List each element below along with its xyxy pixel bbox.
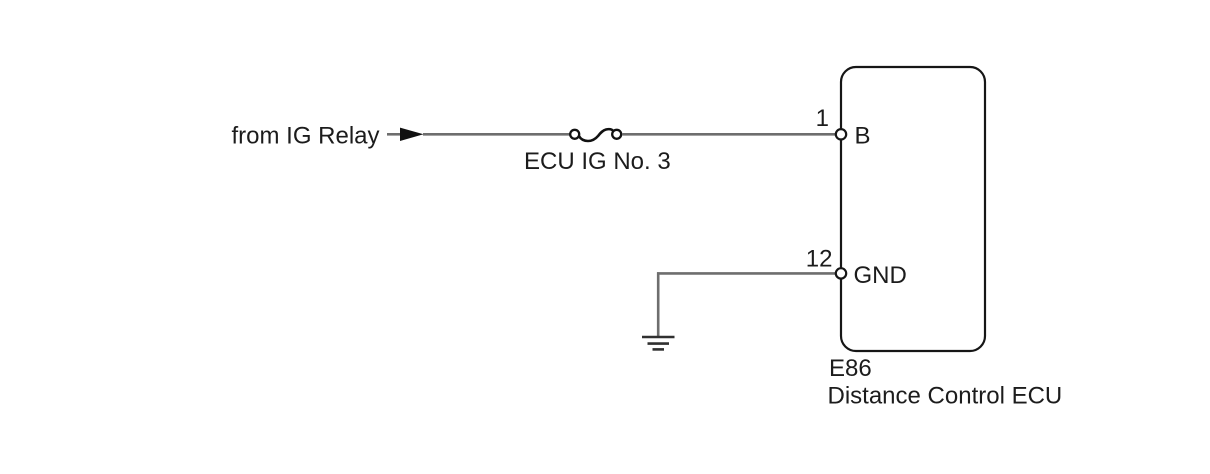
fuse ECU IG No. 3 : left terminal bbox=[570, 130, 579, 139]
pin 12 terminal circle bbox=[836, 268, 846, 278]
ground symbol bar 2 bbox=[648, 342, 670, 345]
wire: ground run to pin 12 bbox=[657, 272, 836, 275]
svg-text:Distance Control ECU: Distance Control ECU bbox=[828, 382, 1063, 409]
ground symbol bar 1 bbox=[642, 336, 675, 339]
arrowhead (signal direction) bbox=[400, 128, 424, 141]
wire: stub before arrow bbox=[387, 133, 402, 136]
svg-text:ECU IG No. 3: ECU IG No. 3 bbox=[524, 148, 671, 175]
svg-text:12: 12 bbox=[806, 246, 833, 273]
svg-text:B: B bbox=[855, 123, 871, 150]
ECU box E86 Distance Control ECU bbox=[841, 67, 985, 351]
wire: vertical drop to ground bbox=[657, 272, 660, 337]
fuse ECU IG No. 3 : element wave bbox=[579, 129, 614, 141]
pin 1 terminal circle bbox=[836, 129, 846, 139]
wire: arrow to fuse bbox=[423, 133, 570, 136]
wire: fuse to pin 1 bbox=[623, 133, 837, 136]
svg-text:1: 1 bbox=[816, 105, 829, 132]
ground symbol bar 3 bbox=[653, 348, 665, 351]
svg-text:from IG Relay: from IG Relay bbox=[232, 123, 380, 150]
svg-text:GND: GND bbox=[854, 262, 907, 289]
fuse ECU IG No. 3 : right terminal bbox=[612, 130, 621, 139]
svg-text:E86: E86 bbox=[829, 355, 872, 382]
